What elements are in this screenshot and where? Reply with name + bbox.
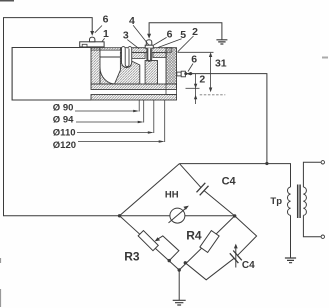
wire from electrode 4 to lid ground (147, 23, 222, 40)
dimension Ø 90 (53, 100, 139, 113)
wire: primary to ground (290, 215, 292, 257)
inner crucible column under tube 3 (hatched) (115, 52, 140, 84)
cell interior cavity (100, 50, 166, 84)
cell vessel right jacket wall 2 (cross-hatched) (166, 48, 177, 95)
cell vessel floor (hatched) (91, 84, 177, 90)
label 6 (left bolt) (95, 13, 109, 33)
electrode 4 bolt and tube (145, 40, 153, 62)
label HH (165, 190, 179, 201)
wire: bridge arm top-left (120, 164, 180, 216)
svg-text:HH: HH (165, 190, 179, 201)
cell vessel outer wall left (hatched) (91, 48, 100, 84)
label 5 (158, 29, 186, 47)
wire: bottom node to ground (178, 270, 180, 300)
wire: meter branch (120, 215, 235, 217)
junction on R4 arm (184, 261, 187, 264)
label C4 (variable) (242, 260, 255, 271)
label 6 (center nut) (154, 28, 173, 45)
ground at lid (216, 40, 227, 44)
svg-text:C4: C4 (222, 176, 237, 188)
wire: variable capacitor loop (185, 216, 256, 280)
svg-text:R3: R3 (124, 249, 140, 263)
dimension 31 (178, 52, 227, 95)
svg-text:4: 4 (129, 15, 135, 27)
svg-text:Ø 94: Ø 94 (53, 115, 74, 126)
node A (bridge left) (118, 214, 121, 217)
wire: secondary top terminal (303, 161, 324, 187)
dimension Ø 94 (53, 100, 144, 126)
svg-text:Ø110: Ø110 (53, 127, 76, 138)
node B (bridge right) (233, 214, 236, 217)
variable capacitor C4 (230, 244, 242, 268)
svg-text:C4: C4 (242, 260, 255, 271)
svg-text:1: 1 (103, 28, 109, 40)
junction at top wire (265, 162, 268, 165)
transformer core (298, 185, 300, 219)
transformer Tp primary winding (287, 187, 290, 215)
label 3 (123, 30, 139, 49)
ground (transformer) (285, 258, 296, 263)
R3 wiper arrow (155, 236, 179, 261)
label 6 (port) with arrow (186, 53, 197, 75)
capacitor C4 (top bridge arm) (179, 164, 234, 216)
tube 3 (white tube, bore, domes) (122, 47, 132, 68)
wire: secondary bottom terminal (303, 215, 324, 238)
svg-text:6: 6 (191, 53, 197, 65)
liquid level line (100, 56, 120, 58)
dimension 2 (port height) (186, 74, 206, 104)
label 4 (129, 15, 149, 45)
wall fillet (hatched corner) (100, 68, 116, 85)
cell vessel base plate (hatched) (91, 95, 177, 101)
inner crucible column right (hatched) (145, 61, 157, 85)
label Tp (270, 196, 282, 207)
wire: bridge arm bottom-right (179, 216, 235, 270)
wire: bridge arm bottom-left (120, 216, 180, 270)
transformer Tp secondary winding (303, 187, 306, 215)
svg-text:Ø120: Ø120 (53, 140, 76, 151)
wire: bridge top node to transformer primary (179, 164, 290, 187)
label 1 (102, 28, 109, 41)
node C (bridge bottom) (178, 268, 181, 271)
enclosure box around cell (12, 48, 91, 101)
svg-text:31: 31 (215, 57, 227, 69)
cell vessel lid 5 (hatched) (91, 48, 172, 59)
label R3 (124, 249, 140, 263)
svg-text:5: 5 (180, 29, 186, 41)
svg-text:6: 6 (103, 13, 109, 25)
dimension Ø110 (53, 100, 154, 138)
dimension Ø120 (53, 100, 165, 151)
svg-text:2: 2 (199, 74, 205, 86)
wire: left rail from bridge node A up and over to electrode 1 (4, 18, 120, 216)
label R4 (186, 228, 202, 242)
svg-text:R4: R4 (186, 228, 202, 242)
label 2 (jacket) (178, 26, 198, 52)
resistor R3 (138, 231, 158, 251)
meter HH (169, 206, 189, 224)
label C4 (top arm) (222, 176, 237, 188)
svg-text:Ø 90: Ø 90 (53, 102, 74, 113)
resistor R4 (200, 231, 219, 253)
wire from port 6 to bridge top wire (184, 72, 267, 163)
junction on R3 arm (168, 259, 171, 262)
svg-text:Tp: Tp (270, 196, 282, 207)
flange and bolt of electrode 1 (80, 37, 104, 47)
svg-text:6: 6 (167, 28, 173, 40)
ground (bridge bottom) (173, 300, 186, 305)
side port 6 (177, 71, 186, 77)
